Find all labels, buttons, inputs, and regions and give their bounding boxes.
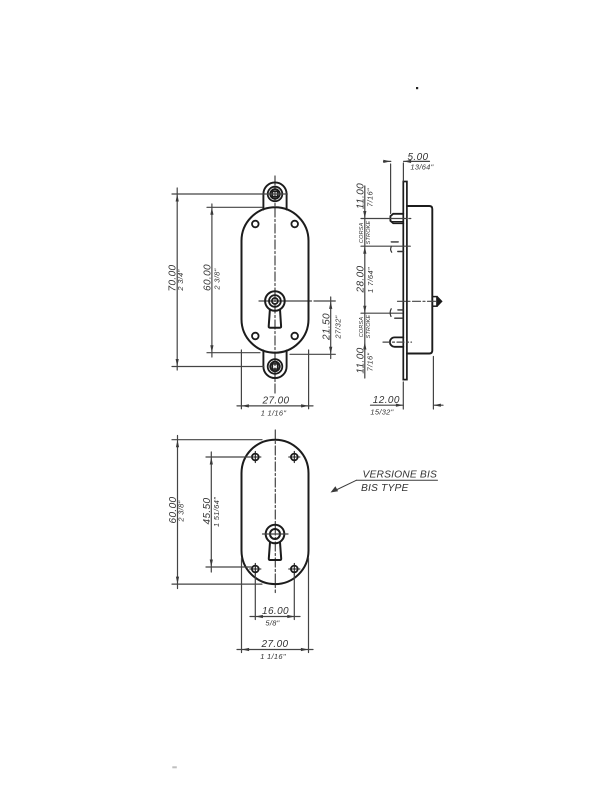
bottom bolt [390, 337, 403, 346]
dim 27.00 BIS line [237, 649, 313, 651]
dim 27.00 line [237, 405, 313, 407]
screw hole top-right [291, 221, 298, 228]
centerline vertical front view [274, 176, 276, 395]
dim 60.00 BIS line [177, 436, 179, 589]
dim 70.00 line [176, 188, 178, 370]
dim 12.00 line + arrows [371, 404, 444, 406]
keyhole BIS crosshair [263, 533, 289, 535]
svg-text:15/32": 15/32" [370, 408, 393, 417]
dim 12.00 ext right [432, 357, 434, 410]
svg-text:BIS TYPE: BIS TYPE [361, 483, 409, 494]
svg-text:27/32": 27/32" [334, 315, 343, 339]
dim 27.00 BIS ext [242, 558, 309, 653]
top stroke phantom [391, 241, 398, 243]
svg-text:7/16": 7/16" [366, 353, 375, 372]
svg-text:27.00: 27.00 [261, 396, 289, 407]
dim 60.00 arrows [210, 207, 213, 352]
svg-text:12.00: 12.00 [373, 395, 400, 406]
centerline bottom view [274, 430, 276, 593]
keyhole BIS stem [269, 542, 281, 560]
dim 60.00 BIS ext [172, 440, 262, 584]
svg-text:1 1/16": 1 1/16" [261, 409, 287, 418]
latch centerline [398, 300, 437, 302]
dim 45.50 arrows [210, 457, 213, 567]
bottom stroke phantom [398, 309, 404, 311]
dim 16.00 arrows [255, 615, 294, 618]
dim 70.00 arrows [176, 194, 179, 367]
screw hole bottom-right [291, 333, 298, 340]
dim 12.00 ext left [402, 382, 404, 409]
label underline [356, 479, 437, 481]
bolt bottom centerline [383, 341, 412, 343]
dim 60.00 ext bottom [207, 352, 260, 354]
svg-text:VERSIONE BIS: VERSIONE BIS [363, 470, 437, 481]
lock body side [407, 206, 432, 354]
leader line [334, 480, 356, 491]
left dim arrows [363, 211, 366, 350]
keyhole BIS outer [266, 525, 285, 544]
dim 27.00 BIS arrows [242, 648, 309, 651]
latch point [437, 296, 442, 307]
screw hole BL [250, 563, 261, 574]
dim 70.00 ext top [172, 193, 287, 195]
svg-text:5.00: 5.00 [407, 152, 428, 163]
svg-text:27.00: 27.00 [260, 639, 288, 650]
ext line bolt top center [361, 218, 411, 220]
svg-text:2 3/8": 2 3/8" [213, 268, 222, 290]
leader arrowhead [331, 486, 339, 492]
keyhole stem [269, 309, 281, 327]
dim 21.50 ext bottom [290, 353, 335, 355]
bottom tab square [272, 364, 277, 369]
keyhole middle circle [269, 295, 281, 307]
top bolt inner line [392, 221, 404, 223]
svg-text:13/64": 13/64" [410, 162, 433, 171]
latch rectangle [432, 297, 437, 307]
svg-text:21.50: 21.50 [321, 313, 332, 341]
dim 27.00 ext left [240, 350, 242, 409]
ext line stroke top [361, 245, 410, 247]
faceplate [403, 182, 407, 380]
keyhole inner circle [272, 298, 278, 304]
dim 60.00 line [211, 204, 213, 357]
oval plate BIS [242, 440, 309, 584]
svg-text:STROKE: STROKE [366, 220, 372, 244]
svg-text:28.00: 28.00 [355, 265, 366, 293]
ext line stroke bottom [361, 312, 402, 314]
keyhole crosshair horizontal [259, 300, 335, 302]
keyhole BIS inner [270, 529, 280, 539]
left dim column line [364, 186, 366, 378]
svg-text:CORSA: CORSA [359, 222, 365, 243]
lock plate oval body [242, 207, 309, 352]
screw hole bottom-left [252, 333, 259, 340]
svg-text:5/8": 5/8" [265, 619, 279, 628]
faint smudge [172, 766, 177, 768]
bottom tab circle outer [268, 359, 283, 374]
dim 5.00 ext left [390, 164, 392, 213]
svg-text:16.00: 16.00 [262, 606, 289, 617]
top bolt [390, 214, 403, 223]
dim 21.50 arrows [329, 301, 332, 354]
dim 16.00 line [250, 616, 300, 618]
svg-text:7/16": 7/16" [366, 188, 375, 207]
bottom tab circle inner bold [270, 362, 279, 371]
top tab circle outer [268, 187, 283, 202]
dim 45.50 line [210, 452, 212, 572]
svg-text:1 1/16": 1 1/16" [260, 652, 286, 661]
dim 60.00 ext top [207, 206, 262, 208]
stray dot [416, 87, 418, 89]
screw hole top-left [252, 221, 259, 228]
dim 60.00 BIS arrows [176, 440, 179, 584]
keyhole outer circle [265, 291, 285, 311]
dim 27.00 ext right [308, 350, 310, 409]
dim 27.00 arrows [241, 404, 308, 407]
svg-text:1 7/64": 1 7/64" [366, 267, 375, 293]
dim 21.50 line [330, 297, 332, 359]
svg-text:2 3/8": 2 3/8" [177, 500, 186, 522]
top tab square [272, 191, 277, 196]
top tab circle inner bold [270, 189, 279, 198]
svg-text:2 3/4": 2 3/4" [176, 269, 185, 291]
dim 45.50 ext [206, 457, 252, 567]
screw hole BR [289, 563, 300, 574]
svg-text:STROKE: STROKE [366, 314, 372, 338]
svg-text:CORSA: CORSA [359, 317, 365, 338]
screw hole TL [250, 451, 261, 462]
dim 5.00 line + arrows [384, 160, 430, 162]
svg-text:1 51/64": 1 51/64" [212, 497, 221, 527]
screw hole TR [289, 451, 300, 462]
dim 70.00 ext bottom [172, 366, 264, 368]
top mounting tab [263, 182, 286, 209]
dim 5.00 ext right [402, 163, 404, 181]
svg-text:60.00: 60.00 [202, 264, 213, 291]
dim 16.00 ext [255, 575, 294, 620]
bottom mounting tab [263, 351, 286, 379]
